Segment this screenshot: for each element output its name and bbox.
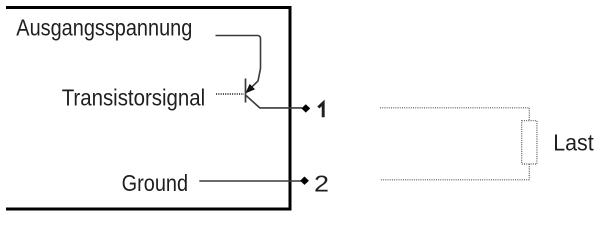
svg-text:Last: Last bbox=[553, 130, 594, 156]
svg-text:Ground: Ground bbox=[122, 170, 189, 196]
svg-text:Transistorsignal: Transistorsignal bbox=[62, 84, 206, 110]
svg-text:Ausgangsspannung: Ausgangsspannung bbox=[16, 15, 192, 41]
svg-text:2: 2 bbox=[314, 171, 329, 197]
